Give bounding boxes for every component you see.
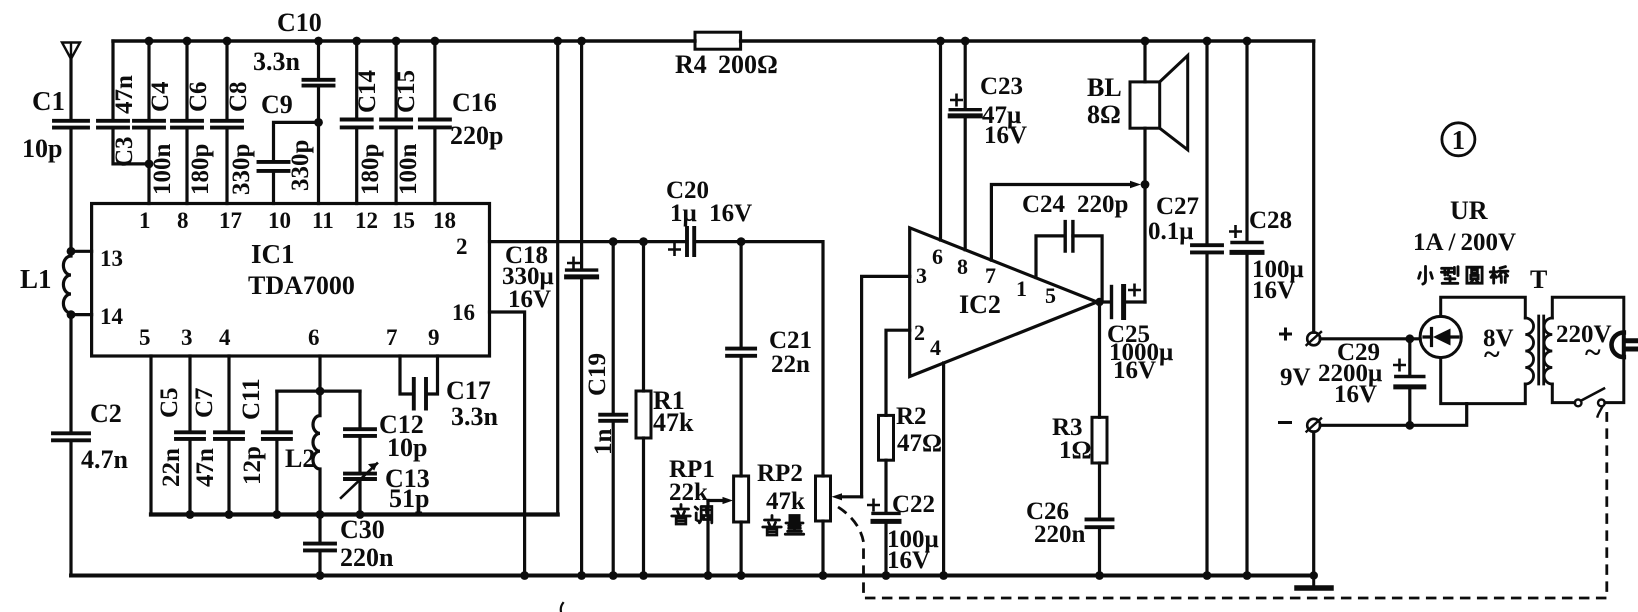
- node: L2/C30 bus junction: [316, 510, 325, 519]
- node: C4 top rail junction: [145, 37, 154, 46]
- wire: C7 to bus: [227, 439, 230, 515]
- svg-text:100n: 100n: [395, 144, 422, 196]
- capacitor C1: [54, 121, 88, 128]
- op-amp U1: IC1 TDA7000 box: [92, 204, 490, 357]
- wire: R1 upper lead: [642, 242, 645, 391]
- wire: pin 6 line down to tank node: [318, 356, 321, 391]
- labels: IC1: [100, 208, 475, 350]
- svg-text:4: 4: [930, 335, 941, 360]
- variable capacitor C13: [345, 474, 375, 479]
- svg-text:220n: 220n: [1034, 521, 1086, 548]
- wire: IC2 pin3 line to RP2 wiper: [862, 276, 910, 496]
- transformer T primary winding: [1525, 318, 1533, 384]
- wire: secondary loop bottom: [1605, 357, 1624, 403]
- wire: C21 to RP1: [739, 356, 742, 476]
- svg-text:C10: C10: [277, 8, 322, 37]
- wire: IC2 pin7 line: [991, 185, 1131, 261]
- svg-text:4.7n: 4.7n: [81, 445, 129, 474]
- wire: pin 5 line to bus: [149, 356, 152, 515]
- AC plug: [1612, 333, 1624, 358]
- capacitor C27: [1192, 245, 1222, 252]
- svg-text:IC1: IC1: [251, 239, 295, 269]
- node: C28 ground junction: [1243, 571, 1252, 580]
- capacitor C5: [176, 432, 204, 439]
- node: speaker rail junction: [1141, 37, 1150, 46]
- svg-text:R2: R2: [896, 403, 927, 430]
- arrow: pin7 wire arrowhead: [1130, 181, 1141, 189]
- svg-text:1n: 1n: [590, 429, 617, 456]
- dashed link: volume switch coupling: [838, 412, 1607, 598]
- potentiometer RP2: [816, 476, 831, 521]
- inductor L2: [313, 391, 320, 514]
- wire: C22 to ground: [884, 521, 887, 575]
- wire: - terminal to bridge bottom: [1320, 404, 1467, 426]
- node: C15 top rail junction: [392, 37, 401, 46]
- wire: C29 lower lead: [1408, 387, 1411, 425]
- node: C26 ground junction: [1095, 571, 1104, 580]
- capacitor C28 polarized: [1232, 241, 1262, 244]
- wire: pin 7 line to C17: [400, 356, 412, 394]
- node: pin4 ground junction: [939, 571, 948, 580]
- svg-text:200Ω: 200Ω: [718, 50, 778, 79]
- svg-text:RP2: RP2: [757, 460, 803, 487]
- node: C19 top junction: [609, 237, 618, 246]
- wire: antenna lead: [69, 59, 72, 121]
- svg-text:12: 12: [355, 208, 378, 233]
- node: C29 bottom junction: [1405, 421, 1414, 430]
- wire: C27 lower lead: [1205, 252, 1208, 575]
- svg-text:UR: UR: [1450, 196, 1488, 225]
- svg-text:3.3n: 3.3n: [451, 402, 499, 431]
- wire: C28 lower lead: [1245, 252, 1248, 575]
- wire: C23 upper lead: [964, 41, 967, 109]
- wire: C26 to ground: [1098, 527, 1101, 575]
- wire: RP2 lower lead: [821, 521, 824, 576]
- svg-text:10p: 10p: [387, 433, 427, 462]
- svg-text:L2: L2: [285, 444, 315, 473]
- C18 plus sign: [567, 257, 580, 270]
- svg-text:2: 2: [914, 320, 925, 345]
- wire: pin 3 line upper: [188, 356, 191, 432]
- node: C22 ground junction: [882, 571, 891, 580]
- wire: C23 to IC2 pin8: [964, 116, 967, 250]
- node: R1 ground junction: [639, 571, 648, 580]
- wire: C25 to speaker line: [1124, 300, 1145, 303]
- wire: bridge box bottom: [1441, 358, 1526, 404]
- wire: R3 to C26: [1098, 463, 1101, 519]
- wire: pin 16 wire down: [490, 312, 525, 576]
- wire: C30 to ground rail: [318, 550, 321, 575]
- svg-text:C1: C1: [32, 86, 65, 116]
- svg-text:6: 6: [308, 325, 320, 350]
- svg-text:16V: 16V: [1334, 381, 1377, 408]
- ground symbol: [1312, 576, 1315, 586]
- node: C7 bus junction: [225, 510, 234, 519]
- svg-text:C24: C24: [1022, 191, 1066, 218]
- node: C16 top rail junction: [431, 37, 440, 46]
- wire: pin 9 line to C17: [428, 356, 438, 394]
- C25 plus sign: [1128, 284, 1141, 297]
- wire: C21 upper lead: [739, 242, 742, 349]
- capacitor C3: [98, 121, 128, 128]
- svg-text:C8: C8: [225, 81, 252, 112]
- capacitor C22 polarized: [873, 512, 899, 515]
- labels: right section: [1087, 73, 1612, 408]
- svg-text:5: 5: [139, 325, 151, 350]
- arrow: C13 trimmer arrow: [341, 464, 377, 498]
- wire: pin 4 line upper: [227, 356, 230, 432]
- svg-text:13: 13: [100, 246, 123, 271]
- svg-text:16V: 16V: [1252, 277, 1295, 304]
- svg-text:16V: 16V: [1113, 357, 1156, 384]
- wire: C24 feedback loop: [1036, 236, 1102, 300]
- C28 plus sign: [1229, 225, 1242, 238]
- svg-text:C7: C7: [191, 387, 218, 418]
- svg-text:11: 11: [312, 208, 334, 233]
- wire: C10 line lower to pin 11: [317, 86, 320, 204]
- transformer T core: [1539, 316, 1544, 384]
- svg-text:3.3n: 3.3n: [253, 47, 301, 76]
- svg-text:C15: C15: [393, 70, 420, 113]
- wire: C13 to bus: [358, 479, 361, 515]
- svg-text:9: 9: [428, 325, 440, 350]
- svg-text:IC2: IC2: [959, 290, 1001, 319]
- svg-text:4: 4: [219, 325, 231, 350]
- wire: RP1 lower lead: [739, 522, 742, 576]
- wire: C8 line: [225, 41, 228, 204]
- node: tank top junction: [316, 387, 325, 396]
- svg-text:C30: C30: [340, 515, 385, 544]
- node: C27 ground junction: [1203, 571, 1212, 580]
- svg-text:C2: C2: [90, 399, 122, 428]
- capacitor C23 polarized: [950, 108, 980, 111]
- svg-text:8: 8: [957, 254, 968, 279]
- potentiometer RP1: [734, 476, 749, 522]
- C22 plus sign: [867, 499, 880, 512]
- capacitor C14: [342, 120, 372, 128]
- svg-text:C4: C4: [147, 81, 174, 112]
- capacitor C20 polarized: [687, 228, 694, 255]
- svg-text:22n: 22n: [158, 448, 185, 487]
- rectifier UR bridge circle: [1420, 316, 1461, 357]
- svg-text:220p: 220p: [1077, 191, 1128, 218]
- wire: C10 line upper: [317, 41, 320, 80]
- svg-text:BL: BL: [1087, 73, 1122, 102]
- node: ground rail end junction: [1310, 571, 1318, 579]
- svg-text:22k: 22k: [669, 479, 708, 506]
- switch S on transformer primary side: [1575, 400, 1582, 407]
- svg-text:18: 18: [433, 208, 456, 233]
- svg-text:1Ω: 1Ω: [1059, 437, 1092, 464]
- transformer T secondary winding: [1544, 318, 1552, 384]
- wire: C18 line upper: [580, 41, 583, 270]
- svg-text:16V: 16V: [508, 286, 551, 313]
- svg-text:5: 5: [1045, 283, 1056, 308]
- wire: C9 branch: [274, 122, 319, 161]
- svg-text:8Ω: 8Ω: [1087, 100, 1121, 129]
- node: RP1 wiper ground junction: [704, 571, 713, 580]
- wire: C27 upper lead: [1205, 41, 1208, 245]
- capacitor C11: [263, 432, 291, 439]
- svg-text:3: 3: [181, 325, 193, 350]
- node: pin14 junction: [67, 310, 76, 319]
- svg-text:~: ~: [1585, 336, 1601, 369]
- svg-text:51p: 51p: [389, 484, 429, 513]
- svg-text:C11: C11: [238, 378, 265, 420]
- svg-text:47n: 47n: [111, 75, 138, 114]
- svg-text:330p: 330p: [287, 140, 314, 191]
- wire: bridge box top: [1441, 297, 1526, 318]
- node: C10 top rail junction: [314, 37, 323, 46]
- svg-text:6: 6: [932, 244, 943, 269]
- capacitor C2: [53, 433, 89, 440]
- node: RP1 ground junction: [737, 571, 746, 580]
- wire: output to C25: [1097, 300, 1110, 303]
- wire: C11 to bus: [275, 439, 278, 515]
- wire: C4 line: [147, 41, 150, 204]
- node: C18 ground junction: [577, 571, 586, 580]
- capacitor C7: [215, 432, 243, 439]
- svg-text:7: 7: [985, 263, 996, 288]
- node: C3/C4 junction: [145, 160, 154, 169]
- capacitor C8: [212, 121, 242, 128]
- svg-text:1: 1: [1016, 276, 1027, 301]
- node: C11 bus junction: [273, 510, 282, 519]
- wire: + terminal to bridge: [1320, 337, 1420, 340]
- node: C28 rail junction: [1243, 37, 1252, 46]
- svg-text:10p: 10p: [22, 134, 62, 163]
- node: C30 ground junction: [316, 571, 325, 580]
- svg-text:C21: C21: [769, 327, 812, 354]
- svg-text:47k: 47k: [766, 488, 805, 515]
- svg-text:R4: R4: [675, 50, 707, 79]
- resistor R2: [879, 415, 894, 460]
- svg-text:47Ω: 47Ω: [897, 430, 942, 457]
- wire: C29 upper lead: [1408, 339, 1411, 376]
- svg-text:47k: 47k: [653, 408, 694, 437]
- node: C8 top rail junction: [223, 37, 232, 46]
- svg-text:C17: C17: [446, 376, 491, 405]
- wire: top V+ rail left segment: [113, 39, 695, 42]
- svg-text:C27: C27: [1156, 193, 1199, 220]
- svg-text:16V: 16V: [984, 122, 1027, 149]
- svg-text:C3: C3: [111, 136, 138, 167]
- svg-text:C23: C23: [980, 73, 1023, 100]
- node: pin13 junction: [67, 247, 76, 256]
- wire: - terminal down to ground rail: [1312, 432, 1315, 576]
- svg-text:7: 7: [386, 325, 398, 350]
- capacitor C15: [381, 120, 411, 128]
- wire: C11 upper: [275, 391, 278, 432]
- svg-text:9V: 9V: [1280, 364, 1311, 391]
- capacitor C24: [1065, 222, 1073, 251]
- op-amp U2: IC2 triangle: [910, 228, 1097, 377]
- svg-text:220p: 220p: [450, 121, 503, 150]
- wire: C30 upper: [318, 515, 321, 544]
- wire: C9 to pin 10: [272, 171, 275, 204]
- inductor L1: [63, 251, 71, 314]
- wire: C12 upper: [358, 391, 361, 429]
- svg-text:0.1μ: 0.1μ: [1148, 218, 1193, 245]
- svg-text:C5: C5: [156, 387, 183, 418]
- capacitor C30: [305, 544, 335, 551]
- node: pin16 ground junction: [520, 571, 529, 580]
- node: C29 top junction: [1405, 334, 1414, 343]
- labels: left section: [20, 8, 503, 474]
- wire: pin 2 output wire: [490, 240, 686, 243]
- labels: IC2 pins: [914, 244, 1056, 360]
- svg-text:8: 8: [177, 208, 189, 233]
- svg-text:220V: 220V: [1556, 321, 1612, 348]
- svg-text:16V: 16V: [887, 547, 930, 574]
- node: IC2 pin8 rail junction: [961, 37, 970, 46]
- wire: secondary loop top: [1552, 297, 1624, 332]
- svg-text:L1: L1: [20, 264, 52, 294]
- resistor R4: [695, 32, 741, 49]
- wire: IC2 pin6 supply line: [939, 41, 942, 240]
- diode inside bridge: [1433, 329, 1451, 346]
- wire: tank top horizontal: [277, 390, 360, 393]
- svg-text:10: 10: [268, 208, 291, 233]
- node: R1 top junction: [639, 237, 648, 246]
- svg-text:22n: 22n: [771, 351, 810, 378]
- wire: stub to IC1 pin 13: [71, 250, 92, 253]
- capacitor C18 polarized: [567, 268, 597, 271]
- resistor R1: [636, 391, 651, 438]
- capacitor C12: [345, 429, 375, 436]
- capacitor C29 polarized: [1396, 375, 1424, 378]
- wire: RP1 wiper to ground: [706, 501, 709, 576]
- terminal: - jack: [1307, 419, 1320, 432]
- svg-text:180p: 180p: [357, 144, 384, 195]
- node: C19 ground junction: [609, 571, 618, 580]
- arrow: RP2 wiper: [839, 495, 862, 498]
- wire: V+ rail drop to + terminal: [1312, 41, 1315, 332]
- wire: R1 lower lead: [642, 438, 645, 576]
- svg-text:C22: C22: [892, 491, 935, 518]
- wire: IC2 pin2 line to R2: [886, 330, 910, 415]
- capacitor C26: [1087, 519, 1113, 527]
- node: C18 top rail junction: [577, 37, 586, 46]
- circled number 1: [1442, 123, 1475, 156]
- labels: rotated cap bank: [111, 69, 617, 487]
- capacitor C19: [600, 415, 626, 421]
- C20 plus sign: [668, 243, 681, 256]
- wire: C14 line: [355, 41, 358, 204]
- node: C9 branch junction: [314, 118, 323, 127]
- wire: tuning bus below IC1: [151, 512, 558, 516]
- node: C5 bus junction: [186, 510, 195, 519]
- svg-text:C28: C28: [1249, 207, 1292, 234]
- node: IC2 pin6 rail junction: [936, 37, 945, 46]
- svg-text:180p: 180p: [187, 144, 214, 195]
- capacitor C10: [304, 80, 334, 86]
- wire: V+ line down to tuning bus: [556, 41, 559, 515]
- antenna: [62, 43, 80, 60]
- svg-text:3: 3: [916, 263, 927, 288]
- C29 plus sign: [1393, 359, 1406, 372]
- node: V+ branch junction at 557.7: [553, 37, 562, 46]
- svg-text:47n: 47n: [192, 448, 219, 487]
- svg-text:C9: C9: [261, 90, 293, 119]
- capacitor C21: [727, 349, 755, 356]
- node: IC2 output junction: [1095, 298, 1103, 306]
- svg-text:T: T: [1530, 265, 1547, 294]
- svg-text:12p: 12p: [239, 446, 266, 485]
- arrow: RP1 wiper: [708, 499, 726, 502]
- node: RP2 ground junction: [819, 571, 828, 580]
- wire: C5 to bus: [188, 439, 191, 515]
- stray mark: [561, 603, 563, 612]
- labels: middle section: [285, 50, 1173, 574]
- wire: C2 to ground rail: [69, 440, 72, 575]
- node: C13 bus junction: [356, 510, 365, 519]
- node: speaker line junction: [1141, 180, 1150, 189]
- wire: C3 elbow to pin1 line: [113, 128, 149, 164]
- capacitor C9: [259, 162, 289, 171]
- svg-text:C16: C16: [452, 88, 497, 117]
- svg-text:1: 1: [139, 208, 151, 233]
- svg-text:17: 17: [219, 208, 242, 233]
- wire: C16 line: [433, 41, 436, 204]
- speaker BL: [1130, 82, 1160, 128]
- wire: C18 line lower: [580, 277, 583, 576]
- svg-text:100n: 100n: [149, 144, 176, 196]
- terminal: + jack: [1307, 332, 1320, 345]
- svg-text:C6: C6: [185, 81, 212, 112]
- wire: C19 line upper: [612, 242, 615, 415]
- wire: R3 upper lead: [1098, 302, 1101, 417]
- capacitor C25 polarized: [1110, 287, 1113, 318]
- resistor R3: [1092, 417, 1107, 463]
- battery - sign: [1278, 421, 1292, 424]
- svg-text:16: 16: [452, 300, 475, 325]
- svg-text:~: ~: [1484, 338, 1500, 371]
- battery + sign: [1279, 328, 1292, 341]
- svg-text:1: 1: [1452, 125, 1466, 155]
- capacitor C16: [420, 120, 450, 128]
- svg-text:TDA7000: TDA7000: [248, 271, 355, 300]
- wire: C12 to C13: [358, 436, 361, 473]
- svg-text:C14: C14: [354, 69, 381, 113]
- capacitor C6: [172, 121, 202, 128]
- wire: R2 to C22: [884, 460, 887, 513]
- wire: C19 line lower: [612, 421, 615, 576]
- wire: L1 down to C2: [69, 315, 72, 433]
- wire: C3 line upper: [111, 41, 114, 121]
- wire: C6 line: [185, 41, 188, 204]
- svg-text:14: 14: [100, 304, 124, 329]
- label: Chinese tone (RP1): [672, 505, 712, 525]
- label: Chinese small round bridge (UR): [1419, 266, 1508, 284]
- wire: C1 to pin13 node: [69, 128, 72, 252]
- label: Chinese volume (RP2): [763, 516, 804, 536]
- wire: bottom ground rail: [71, 574, 1316, 578]
- wire: IC2 pin4 line: [942, 363, 945, 576]
- svg-text:15: 15: [392, 208, 415, 233]
- svg-text:220n: 220n: [340, 543, 394, 572]
- svg-text:1μ 16V: 1μ 16V: [670, 200, 752, 227]
- node: C14 top rail junction: [352, 37, 361, 46]
- wire: stub to IC1 pin 14: [71, 313, 92, 316]
- wire: C28 upper lead: [1245, 41, 1248, 242]
- C23 plus sign: [950, 94, 963, 107]
- node: C27 rail junction: [1203, 37, 1212, 46]
- wire: C15 line: [395, 41, 398, 204]
- node: C21 top junction: [737, 237, 746, 246]
- wire: speaker line: [1143, 41, 1146, 302]
- svg-text:330p: 330p: [228, 144, 255, 195]
